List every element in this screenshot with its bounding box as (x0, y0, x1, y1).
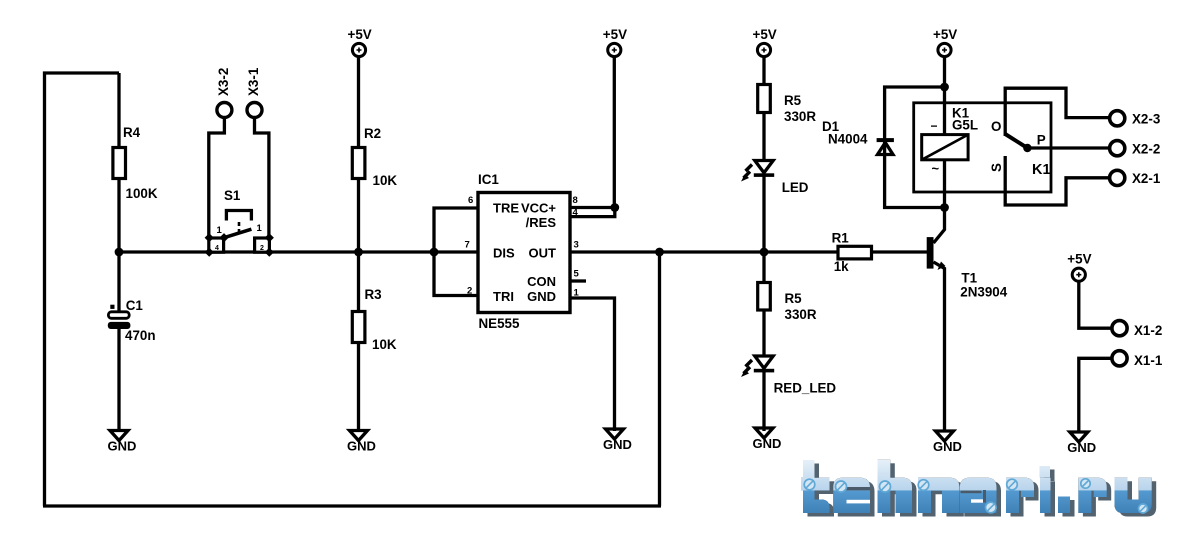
svg-text:GND: GND (753, 436, 782, 451)
svg-text:2: 2 (260, 245, 264, 252)
svg-text:2: 2 (467, 286, 472, 297)
svg-text:R2: R2 (364, 126, 381, 141)
svg-text:S1: S1 (224, 188, 241, 203)
svg-text:GND: GND (603, 437, 632, 452)
svg-text:T1: T1 (961, 271, 977, 286)
svg-text:R3: R3 (365, 287, 382, 302)
svg-text:X3-2: X3-2 (216, 68, 231, 96)
svg-text:470n: 470n (125, 328, 156, 343)
svg-text:R4: R4 (123, 125, 141, 140)
svg-text:X1-1: X1-1 (1134, 353, 1163, 368)
svg-text:3: 3 (574, 240, 579, 251)
svg-text:4: 4 (215, 245, 219, 252)
svg-text:LED: LED (782, 180, 809, 195)
svg-text:+5V: +5V (753, 27, 777, 42)
svg-text:1: 1 (257, 223, 263, 234)
svg-text:100K: 100K (126, 186, 158, 201)
svg-text:N4004: N4004 (828, 132, 868, 147)
svg-text:7: 7 (465, 240, 470, 251)
svg-text:P: P (1037, 133, 1046, 148)
svg-text:OUT: OUT (529, 246, 557, 261)
svg-text:TRI: TRI (493, 289, 514, 304)
svg-text:X2-3: X2-3 (1132, 112, 1160, 127)
svg-text:1: 1 (574, 288, 580, 299)
svg-text:K1: K1 (1032, 162, 1051, 178)
svg-text:NE555: NE555 (479, 316, 520, 331)
svg-text:8: 8 (573, 195, 578, 206)
svg-text:S: S (989, 163, 1004, 172)
svg-text:5: 5 (574, 269, 580, 280)
svg-text:TRE: TRE (493, 201, 519, 216)
svg-text:/RES: /RES (526, 215, 557, 230)
svg-text:X2-1: X2-1 (1132, 171, 1161, 186)
svg-text:+5V: +5V (603, 27, 627, 42)
svg-text:330R: 330R (785, 307, 817, 322)
svg-text:+5V: +5V (1067, 252, 1091, 267)
svg-text:RED_LED: RED_LED (774, 381, 837, 396)
svg-text:330R: 330R (784, 109, 816, 124)
svg-text:IC1: IC1 (478, 172, 499, 187)
svg-text:10K: 10K (372, 337, 397, 352)
svg-text:GND: GND (933, 439, 962, 454)
svg-text:10K: 10K (373, 173, 398, 188)
svg-text:R1: R1 (832, 231, 850, 246)
svg-text:GND: GND (108, 439, 137, 454)
svg-text:CON: CON (527, 274, 556, 289)
svg-text:X2-2: X2-2 (1132, 141, 1160, 156)
svg-text:+5V: +5V (348, 27, 372, 42)
svg-text:~: ~ (932, 161, 940, 176)
svg-text:1k: 1k (834, 259, 849, 274)
svg-text:G5L: G5L (952, 118, 978, 133)
svg-text:X1-2: X1-2 (1134, 323, 1162, 338)
svg-text:GND: GND (347, 439, 376, 454)
svg-text:X3-1: X3-1 (246, 67, 261, 96)
svg-text:GND: GND (527, 289, 556, 304)
svg-text:6: 6 (468, 195, 473, 206)
svg-text:+5V: +5V (933, 27, 957, 42)
svg-text:DIS: DIS (493, 246, 515, 261)
svg-text:R5: R5 (784, 93, 802, 108)
svg-text:1: 1 (217, 225, 223, 236)
svg-text:GND: GND (1067, 440, 1096, 455)
svg-text:−: − (931, 119, 938, 133)
svg-text:C1: C1 (126, 298, 144, 313)
svg-text:R5: R5 (785, 291, 803, 306)
svg-text:VCC+: VCC+ (521, 201, 556, 216)
svg-text:O: O (991, 119, 1001, 134)
svg-text:4: 4 (573, 208, 579, 219)
svg-text:2N3904: 2N3904 (960, 285, 1007, 300)
